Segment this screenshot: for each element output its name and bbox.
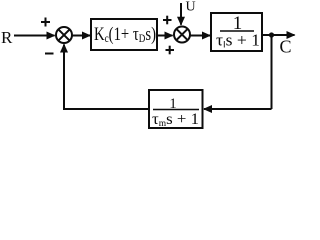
svg-text:Kc(1+ τDs): Kc(1+ τDs) [94, 25, 156, 45]
wire summer 2 to process block [190, 35, 210, 37]
wire measurement block to left [63, 108, 149, 110]
node R label [1, 28, 13, 47]
node U label [186, 0, 196, 15]
svg-text:U: U [186, 0, 196, 15]
wire summer 1 to controller block [72, 35, 90, 37]
wire to measurement block [204, 108, 272, 110]
svg-text:C: C [280, 37, 292, 57]
controller block Kc(1+tauD s) [91, 19, 157, 50]
wire U into summer 2 [180, 3, 182, 25]
wire controller to summer 2 [157, 35, 173, 37]
wire feedback up into summer 1 [63, 45, 65, 110]
measurement block 1/(taum s+1) [149, 90, 203, 128]
minus sign at summer 1 feedback input [45, 53, 54, 55]
process block 1/(tau1 s+1) [211, 13, 262, 51]
branch node dot [269, 32, 274, 37]
summing junction 2 [174, 27, 190, 43]
plus sign at summer 1 top input [41, 18, 50, 27]
plus sign at summer 2 left-top [163, 16, 172, 25]
wire process output to C [262, 34, 295, 36]
svg-text:R: R [1, 28, 13, 47]
wire R to summer 1 [14, 35, 55, 37]
wire branch down [271, 35, 273, 109]
plus sign at summer 2 left-bottom [166, 46, 175, 55]
node C label [280, 37, 292, 57]
svg-text:τms + 1: τms + 1 [152, 111, 199, 128]
svg-text:τIs + 1: τIs + 1 [216, 31, 260, 50]
summing junction 1 [56, 27, 72, 43]
